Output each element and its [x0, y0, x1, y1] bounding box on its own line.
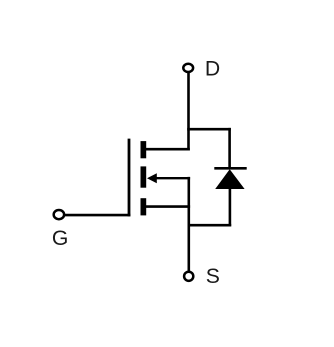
wire: gate horizontal from G terminal	[65, 214, 131, 217]
wire: source horizontal to channel	[146, 205, 190, 208]
wire: bottom horizontal joining source to diode	[188, 224, 232, 227]
wire: diode vertical lower (anode side)	[229, 188, 232, 226]
wire: diode vertical upper (cathode side)	[228, 128, 231, 168]
wire: drain vertical from D terminal	[187, 72, 190, 150]
wire: drain horizontal to channel	[146, 148, 190, 151]
diode D1 cathode bar	[214, 167, 246, 170]
svg-text:D: D	[205, 57, 220, 80]
terminal D (circle)	[183, 64, 193, 72]
terminal S (circle)	[184, 272, 193, 281]
MOSFET Q1 channel bar: drain segment	[141, 141, 147, 158]
svg-text:S: S	[206, 265, 220, 288]
diode D1 anode triangle	[215, 169, 244, 189]
MOSFET Q1 channel bar: source segment	[141, 198, 147, 215]
wire: source/body vertical down to S terminal	[188, 177, 191, 272]
svg-text:G: G	[52, 227, 68, 250]
wire: body connection horizontal with arrow	[154, 177, 191, 179]
terminal G (circle)	[54, 210, 64, 219]
MOSFET Q1 channel bar: body segment	[141, 166, 147, 187]
MOSFET Q1 gate plate	[128, 139, 131, 217]
arrowhead (body, pointing into channel)	[147, 173, 157, 183]
wire: diode branch top horizontal	[187, 128, 231, 131]
